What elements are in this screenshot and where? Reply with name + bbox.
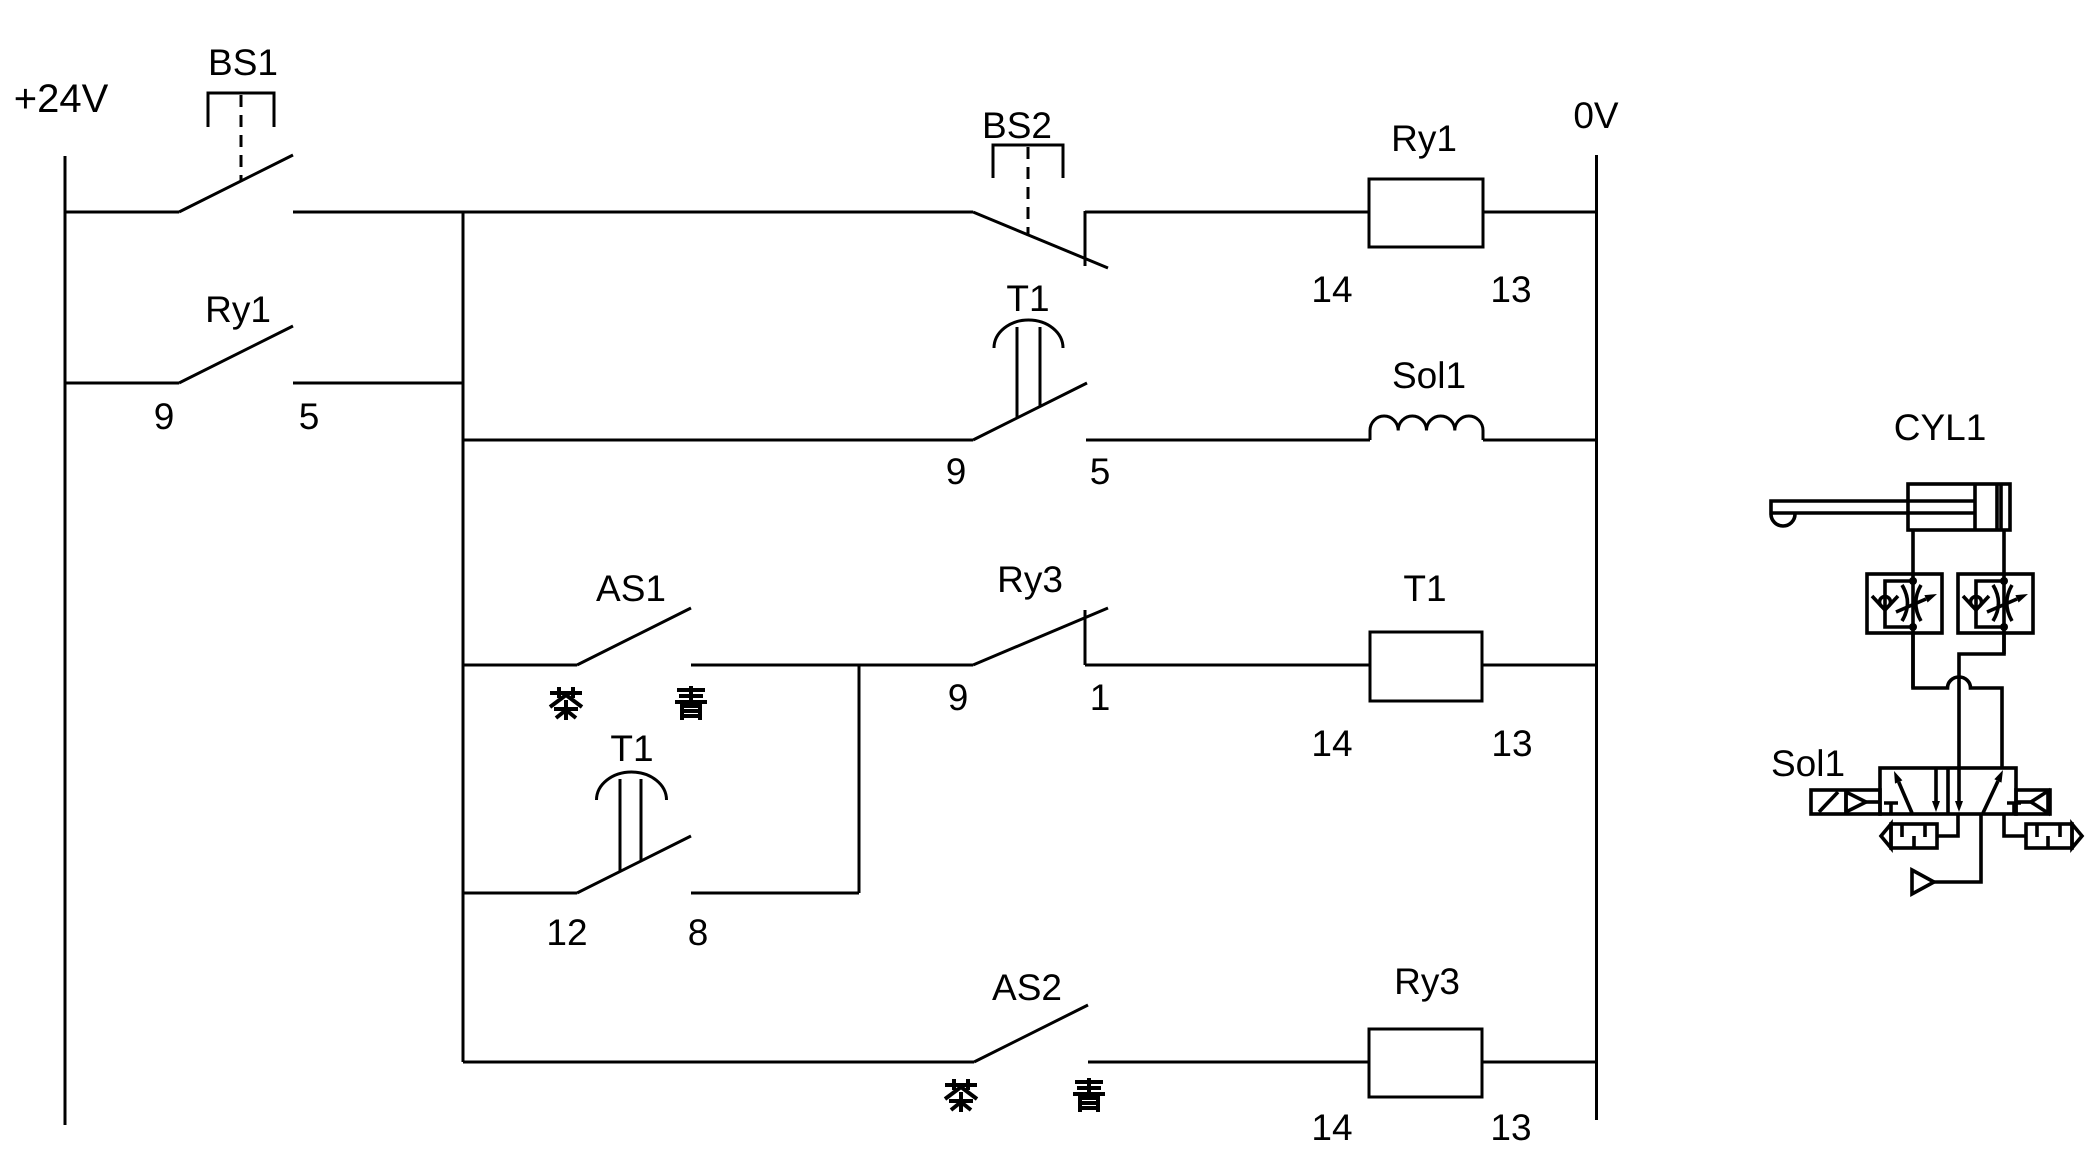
pneumatic return box xyxy=(2016,790,2050,814)
svg-text:13: 13 xyxy=(1490,1107,1531,1148)
valve divider xyxy=(1946,768,1950,814)
relay contact Ry3 (NO) xyxy=(973,608,1108,665)
svg-text:AS2: AS2 xyxy=(992,967,1062,1008)
svg-text:9: 9 xyxy=(154,396,175,437)
svg-text:5: 5 xyxy=(299,396,320,437)
wire Ry3 coil to 0V xyxy=(1482,1061,1596,1064)
muffler right xyxy=(2026,824,2082,848)
timer coil T1 xyxy=(1370,632,1482,701)
svg-text:Sol1: Sol1 xyxy=(1771,743,1845,784)
limit switch AS1 xyxy=(577,608,691,665)
relay coil Ry3 xyxy=(1369,1029,1482,1097)
air supply triangle xyxy=(1912,870,1934,894)
valve right square blocked port T xyxy=(2007,803,2021,814)
valve left square blocked port T xyxy=(1884,803,1898,814)
cylinder piston xyxy=(1973,484,1977,530)
limit switch AS2 xyxy=(974,1005,1088,1062)
wire rung2 rail to Ry1 contact xyxy=(65,382,179,385)
solenoid pilot triangle xyxy=(1846,792,1866,812)
pipe muffler left to valve xyxy=(1937,814,1958,836)
svg-text:9: 9 xyxy=(948,677,969,718)
junction vertical wire xyxy=(858,665,861,893)
+24V rail xyxy=(64,156,67,1125)
pipe right flow control to valve port 2 xyxy=(1959,633,2004,802)
wire Ry1 contact to bus xyxy=(293,382,463,385)
svg-text:AS1: AS1 xyxy=(596,568,666,609)
svg-text:+24V: +24V xyxy=(14,77,109,121)
wire AS1 to Ry3 contact xyxy=(691,664,973,667)
wire rung6 bus to AS2 xyxy=(463,1061,974,1064)
timer contact T1 lower (NO, on-delay) xyxy=(577,772,691,893)
svg-text:CYL1: CYL1 xyxy=(1894,407,1987,448)
svg-text:9: 9 xyxy=(946,451,967,492)
pushbutton BS1 xyxy=(179,93,293,212)
arrowhead down right square xyxy=(1955,801,1963,812)
svg-text:5: 5 xyxy=(1090,451,1111,492)
wire Sol1 to 0V xyxy=(1483,439,1596,442)
cylinder CYL1 body xyxy=(1908,484,2010,530)
wire BS1 to BS2 xyxy=(293,211,973,214)
relay contact Ry1 (NO) xyxy=(179,326,293,383)
svg-text:1: 1 xyxy=(1090,677,1111,718)
pipe valve to muffler right xyxy=(2004,814,2026,836)
glyph blue (AS2) xyxy=(1073,1078,1105,1112)
relay coil Ry1 xyxy=(1369,179,1483,247)
left bus vertical xyxy=(462,212,465,1062)
svg-text:13: 13 xyxy=(1491,723,1532,764)
wire rung1 rail to BS1 xyxy=(65,211,179,214)
wire rung5 bus to T1 lower contact xyxy=(463,892,577,895)
pipe cylinder right port xyxy=(2002,530,2006,654)
svg-text:14: 14 xyxy=(1311,269,1352,310)
glyph tea (AS2) xyxy=(945,1079,977,1112)
svg-text:T1: T1 xyxy=(1403,568,1446,609)
flow control valve right xyxy=(1958,574,2033,633)
wire T1 contact to Sol1 coil xyxy=(1086,439,1370,442)
0V rail xyxy=(1595,155,1598,1120)
solenoid coil Sol1 xyxy=(1370,416,1483,440)
wire rung3 bus to T1 contact xyxy=(463,439,973,442)
wire Ry3 contact to T1 coil xyxy=(1085,664,1370,667)
svg-text:Ry3: Ry3 xyxy=(997,559,1063,600)
svg-text:14: 14 xyxy=(1311,1107,1352,1148)
svg-text:Sol1: Sol1 xyxy=(1392,355,1466,396)
svg-text:14: 14 xyxy=(1311,723,1352,764)
cylinder rod xyxy=(1771,501,1975,526)
solenoid actuator box xyxy=(1811,790,1880,814)
svg-text:12: 12 xyxy=(546,912,587,953)
svg-text:8: 8 xyxy=(688,912,709,953)
pushbutton BS2 (NC) xyxy=(973,145,1108,268)
svg-text:13: 13 xyxy=(1490,269,1531,310)
pipe left flow control to valve port 4 (with hop) xyxy=(1913,633,2002,768)
svg-text:BS1: BS1 xyxy=(208,42,278,83)
pipe cylinder left port xyxy=(1911,530,1915,688)
svg-text:Ry3: Ry3 xyxy=(1394,961,1460,1002)
svg-text:0V: 0V xyxy=(1573,95,1619,136)
wire rung4 bus to AS1 xyxy=(463,664,577,667)
valve left square diagonal arrow xyxy=(1899,782,1912,813)
timer contact T1 (NO, on-delay) xyxy=(973,320,1087,440)
valve right square diagonal arrow xyxy=(1983,781,1998,813)
muffler left xyxy=(1881,824,1937,848)
wire coil Ry1 to 0V xyxy=(1483,211,1596,214)
wire AS2 to Ry3 coil xyxy=(1088,1061,1369,1064)
svg-text:T1: T1 xyxy=(610,728,653,769)
glyph tea (AS1) xyxy=(550,687,582,720)
wire T1 lower to junction xyxy=(691,892,859,895)
glyph blue (AS1) xyxy=(675,686,707,720)
svg-text:T1: T1 xyxy=(1006,278,1049,319)
pipe supply to valve port 1 xyxy=(1934,814,1981,882)
flow control valve left xyxy=(1867,574,1942,633)
wire T1 coil to 0V xyxy=(1482,664,1596,667)
wire BS2 to coil Ry1 xyxy=(1085,211,1369,214)
valve Sol1 body xyxy=(1880,768,2016,814)
svg-text:Ry1: Ry1 xyxy=(205,289,271,330)
svg-text:BS2: BS2 xyxy=(982,105,1052,146)
svg-text:Ry1: Ry1 xyxy=(1391,118,1457,159)
valve left square down arrow xyxy=(1934,768,1938,802)
